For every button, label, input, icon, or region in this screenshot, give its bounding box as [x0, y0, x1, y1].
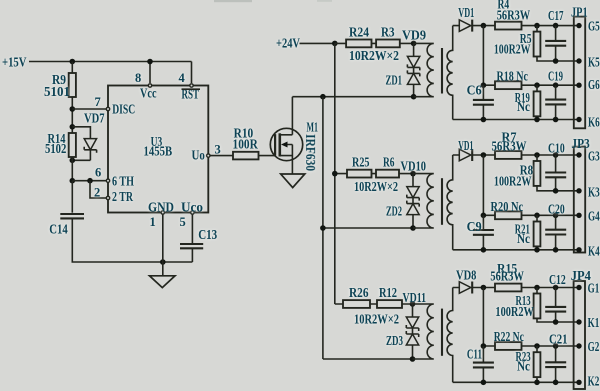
node junction dot C19 top [553, 82, 559, 88]
svg-text:10R2W×2: 10R2W×2 [349, 48, 399, 63]
wire +24V vertical rail [334, 43, 336, 304]
diode VD11 zener [403, 290, 427, 331]
svg-text:G4: G4 [588, 209, 600, 224]
label 10R2Wx2 ch3 [354, 312, 399, 327]
transformer T2 secondary [447, 155, 453, 250]
node junction dot VD7 top tee [70, 124, 76, 130]
svg-text:G6: G6 [588, 77, 600, 92]
wire VD7 branch bottom [72, 159, 90, 161]
svg-text:C12: C12 [549, 272, 566, 287]
svg-text:2: 2 [94, 186, 100, 200]
diode VD9 zener [402, 28, 426, 71]
svg-text:C17: C17 [548, 8, 564, 23]
pin 5 Uco [180, 200, 204, 230]
resistor R18 [495, 69, 528, 90]
svg-text:Uco: Uco [181, 200, 203, 215]
resistor R22 [494, 329, 524, 350]
wire TH to pin6 [72, 180, 106, 182]
wire sec3 bottom row [453, 381, 579, 383]
svg-text:100R2W: 100R2W [494, 174, 532, 189]
wire GND pin stem [162, 215, 164, 262]
node junction dot R21 top [534, 213, 540, 219]
diode ZD2 zener [386, 198, 419, 228]
resistor R14 [45, 131, 76, 157]
capacitor C12 [545, 272, 566, 322]
ground symbol under M1 [281, 174, 305, 188]
node junction dot C11 bottom [481, 380, 487, 386]
wire G row sec1 [483, 84, 579, 86]
label 10R2Wx2 ch2 [354, 179, 398, 194]
capacitor C9 [467, 215, 494, 250]
svg-text:G5: G5 [588, 19, 600, 34]
node junction dot R8 top [534, 152, 540, 158]
wire left rail R14-TH [71, 157, 73, 181]
node junction dot zener2 bottom [410, 225, 416, 231]
ground symbol under GND [150, 262, 176, 288]
wire TR step to pin2 [90, 181, 106, 198]
wire +15V rail [29, 61, 192, 63]
capacitor C11 [467, 346, 494, 382]
wire left rail top [71, 62, 73, 74]
capacitor C20 [545, 202, 566, 250]
wire channel2 input row [335, 173, 413, 175]
resistor R6 [376, 155, 399, 178]
resistor R26 [343, 285, 370, 308]
wire Uo to R10 [210, 155, 233, 157]
node junction dot C9 bottom [481, 247, 487, 253]
node junction dot R21 bottom [534, 247, 540, 253]
node K6 terminal [576, 114, 600, 129]
svg-text:R6: R6 [383, 155, 395, 170]
transformer T3 core [441, 309, 443, 356]
svg-text:VD1: VD1 [458, 5, 474, 20]
svg-text:R22 Nc: R22 Nc [494, 329, 524, 344]
wire RST pin4 drop [191, 62, 193, 84]
node junction dot ch2 bottom rail [320, 225, 326, 231]
diode ZD1 zener [386, 67, 420, 96]
node junction dot DISC tee [70, 106, 76, 112]
transformer T2 primary [413, 174, 434, 228]
diode VD1 [458, 5, 474, 32]
svg-text:C6: C6 [467, 83, 482, 98]
wire +24V feed [300, 42, 335, 44]
svg-text:G2: G2 [588, 339, 600, 354]
wire K row sec2 [537, 186, 579, 191]
svg-text:M1: M1 [307, 119, 319, 134]
svg-text:R24: R24 [349, 25, 369, 40]
diode VD1 [458, 138, 473, 161]
svg-text:6 TH: 6 TH [112, 173, 134, 188]
wire VD1 out vertical [482, 155, 484, 215]
wire channel1 input row [335, 42, 414, 44]
label 10R2Wx2 ch1 [349, 48, 399, 63]
svg-text:VD9: VD9 [402, 28, 426, 43]
svg-text:10R2W×2: 10R2W×2 [354, 179, 398, 194]
pin 7 DISC [95, 95, 136, 117]
transformer T1 primary [414, 43, 434, 96]
node junction dot C20 top [553, 213, 559, 219]
node junction dot R19 bottom [534, 117, 540, 123]
svg-text:K5: K5 [588, 55, 600, 70]
node junction dot zener1 top [411, 41, 417, 47]
node junction dot R19 top [534, 82, 540, 88]
node junction dot VD8 out [481, 285, 487, 291]
transformer T3 primary [413, 304, 434, 359]
node junction dot +24V rail top [332, 41, 338, 47]
svg-text:VD8: VD8 [456, 268, 477, 283]
svg-text:JP1: JP1 [571, 4, 588, 19]
svg-text:R18 Nc: R18 Nc [497, 69, 529, 84]
diode VD10 zener [401, 158, 427, 200]
node junction dot C6 bottom [481, 117, 487, 123]
transformer T2 core [441, 178, 443, 225]
node junction dot C9 top [481, 213, 487, 219]
node K2 terminal [576, 373, 599, 388]
node junction dot VD7 bottom [70, 158, 76, 164]
node junction dot TR tee [87, 178, 93, 184]
resistor R13 [495, 288, 540, 320]
resistor R10 [233, 125, 259, 159]
capacitor C19 [545, 69, 566, 120]
svg-text:VD11: VD11 [403, 290, 427, 305]
node junction dot VD1 out [481, 152, 487, 158]
connector JP4 [571, 268, 591, 389]
wire C13 bottom [191, 248, 193, 262]
capacitor C6 [467, 83, 494, 120]
pin 6 TH [95, 166, 134, 189]
node junction dot C6 top [481, 82, 487, 88]
wire R10 to gate [259, 155, 276, 157]
node junction dot R23 bottom [534, 380, 540, 386]
svg-text:Nc: Nc [517, 231, 530, 246]
resistor R4 [495, 0, 531, 30]
svg-text:3: 3 [215, 142, 221, 156]
svg-text:GND: GND [148, 200, 174, 215]
node junction dot C21 top [553, 343, 559, 349]
svg-text:Uo: Uo [192, 148, 206, 163]
wire channel2 bottom row [323, 227, 413, 229]
node junction dot C21 bottom [553, 380, 559, 386]
wire sec3 top row [453, 287, 579, 289]
capacitor C17 [545, 8, 566, 61]
op-amp U3 1455B box [108, 86, 208, 213]
node junction dot rail ch2 [332, 171, 338, 177]
resistor R8 [494, 155, 540, 189]
wire drain vertical rail [322, 97, 324, 359]
node junction dot VD1 out [481, 23, 487, 29]
svg-text:1: 1 [150, 215, 156, 229]
pin 2 TR [94, 186, 133, 204]
pin 4 RST [179, 71, 201, 102]
svg-text:ZD1: ZD1 [386, 73, 403, 88]
svg-text:C20: C20 [548, 202, 565, 217]
svg-text:ZD2: ZD2 [386, 204, 402, 219]
wire K row sec3 [537, 318, 579, 322]
node junction dot zener3 top [410, 301, 416, 307]
resistor R19 [515, 85, 541, 119]
svg-text:VD7: VD7 [84, 111, 105, 126]
svg-text:DISC: DISC [112, 102, 135, 117]
node junction dot +15V/pin8 [147, 59, 153, 65]
node K4 terminal [576, 243, 600, 258]
svg-text:56R3W: 56R3W [492, 138, 527, 153]
wire channel3 input row [335, 303, 413, 305]
node G6 terminal [576, 77, 600, 92]
wire drain horizontal [292, 96, 413, 98]
node junction dot drain rail top [320, 94, 326, 100]
wire channel3 bottom row [323, 358, 413, 360]
svg-text:7: 7 [95, 95, 101, 109]
connector JP1 [571, 4, 588, 128]
wire VD1 out vertical [482, 26, 484, 86]
resistor R21 [515, 215, 541, 250]
resistor R7 [492, 129, 527, 159]
svg-text:Nc: Nc [517, 358, 530, 373]
svg-text:K2: K2 [588, 373, 600, 388]
node junction dot C17 bottom [553, 58, 559, 64]
stray mark top edge 1 [214, 0, 252, 2]
svg-text:IRF630: IRF630 [303, 134, 318, 171]
node +24V label [276, 35, 300, 50]
diode VD7 zener [84, 111, 105, 161]
resistor R20 [491, 199, 524, 219]
svg-text:G1: G1 [588, 281, 600, 296]
wire Uco stem [191, 215, 193, 244]
svg-text:R25: R25 [352, 155, 370, 170]
svg-text:VD10: VD10 [401, 158, 427, 173]
node junction dot R23 top [534, 343, 540, 349]
svg-text:2 TR: 2 TR [112, 189, 133, 204]
svg-text:+15V: +15V [2, 55, 27, 70]
wire sec2 bottom row [453, 249, 579, 251]
svg-text:4: 4 [179, 71, 186, 85]
svg-text:5: 5 [180, 215, 186, 229]
node G3 terminal [576, 148, 600, 163]
diode VD8 [456, 268, 477, 294]
wire sec1 bottom row [453, 119, 579, 121]
svg-text:C21: C21 [549, 332, 568, 347]
svg-text:R3: R3 [381, 25, 395, 40]
node G5 terminal [576, 19, 600, 34]
node K5 terminal [576, 55, 600, 70]
resistor R3 [376, 25, 400, 48]
svg-text:56R3W: 56R3W [497, 8, 531, 23]
svg-text:K6: K6 [588, 114, 600, 129]
svg-text:10R2W×2: 10R2W×2 [354, 312, 399, 327]
svg-text:100R2W: 100R2W [494, 42, 531, 57]
node G4 terminal [576, 209, 600, 224]
svg-text:5102: 5102 [45, 141, 66, 156]
node junction dot R5 top [534, 23, 540, 29]
svg-text:R20 Nc: R20 Nc [491, 199, 524, 214]
node G1 terminal [576, 281, 599, 296]
resistor R23 [516, 346, 541, 382]
svg-text:R12: R12 [379, 285, 397, 300]
resistor R9 [44, 72, 76, 99]
node junction dot C10 top [553, 152, 559, 158]
svg-text:G3: G3 [588, 148, 600, 163]
resistor R12 [377, 285, 402, 308]
wire DISC [72, 108, 106, 110]
svg-text:R26: R26 [349, 285, 369, 300]
svg-text:K4: K4 [588, 243, 600, 258]
pin 8 Vcc [135, 71, 157, 101]
node junction dot zener2 top [410, 171, 416, 177]
node junction dot zener1 bottom [411, 94, 417, 100]
transformer T1 secondary [447, 26, 453, 120]
wire sec2 top row [453, 154, 579, 156]
wire G row sec2 [483, 214, 579, 216]
svg-text:K3: K3 [588, 184, 600, 199]
wire left rail R9-R14 [71, 97, 73, 133]
svg-text:C10: C10 [548, 140, 565, 155]
wire VD7 branch top [72, 127, 90, 139]
wire VD8 out vertical [482, 288, 484, 347]
transformer T3 secondary [447, 288, 453, 383]
capacitor C21 [545, 332, 567, 383]
svg-text:100R2W: 100R2W [495, 304, 534, 319]
svg-text:C19: C19 [548, 69, 563, 84]
node junction dot C12 top [553, 285, 559, 291]
svg-text:VD1: VD1 [458, 138, 473, 153]
svg-text:C9: C9 [467, 219, 482, 234]
svg-text:1455B: 1455B [144, 144, 173, 159]
svg-text:6: 6 [95, 166, 101, 180]
transformer T1 core [441, 48, 443, 94]
pin 3 Uo [192, 142, 221, 162]
wire K row sec1 [537, 57, 579, 62]
capacitor C14 [49, 214, 84, 237]
node junction dot C12 bottom [553, 319, 559, 325]
node K3 terminal [576, 184, 600, 199]
capacitor C10 [545, 140, 566, 190]
svg-text:100R: 100R [233, 137, 259, 152]
connector JP3 [571, 136, 590, 253]
svg-text:C11: C11 [467, 347, 482, 362]
svg-text:Nc: Nc [517, 99, 530, 114]
pin 1 GND [148, 200, 174, 230]
resistor R15 [490, 261, 524, 291]
node K1 terminal [576, 315, 599, 330]
wire C14 to bottom rail [72, 218, 192, 262]
resistor R25 [347, 155, 372, 178]
node junction dot ground tee [160, 259, 166, 265]
node junction dot zener3 bottom [410, 356, 416, 362]
wire G row sec3 [483, 345, 579, 347]
transistor M1 IRF630 [270, 97, 318, 174]
node junction dot TH tee [70, 178, 76, 184]
wire sec1 top row [453, 25, 579, 27]
svg-text:ZD3: ZD3 [386, 333, 403, 348]
node +15V label [2, 55, 27, 70]
node junction dot C20 bottom [553, 247, 559, 253]
diode ZD3 zener [386, 328, 419, 359]
svg-text:C14: C14 [49, 222, 68, 237]
node junction dot C10 bottom [553, 188, 559, 194]
node junction dot R13 top [534, 285, 540, 291]
wire left rail to C14 [71, 181, 73, 213]
svg-text:K1: K1 [588, 315, 600, 330]
node junction dot C19 bottom [553, 117, 559, 123]
node junction dot C17 top [553, 23, 559, 29]
svg-text:C13: C13 [198, 227, 217, 242]
stray mark top edge 2 [317, 0, 332, 2]
node G2 terminal [576, 339, 599, 354]
node junction dot +15V/R9 [70, 59, 76, 65]
svg-text:5101: 5101 [44, 84, 70, 99]
svg-text:Vcc: Vcc [140, 86, 157, 101]
resistor R24 [346, 25, 371, 48]
node junction dot C11 top [481, 343, 487, 349]
svg-text:8: 8 [135, 71, 141, 85]
svg-text:+24V: +24V [276, 35, 300, 50]
svg-text:56R3W: 56R3W [490, 269, 524, 284]
capacitor C13 [180, 227, 217, 248]
resistor R5 [494, 26, 540, 57]
wire Vcc pin8 drop [149, 62, 151, 84]
